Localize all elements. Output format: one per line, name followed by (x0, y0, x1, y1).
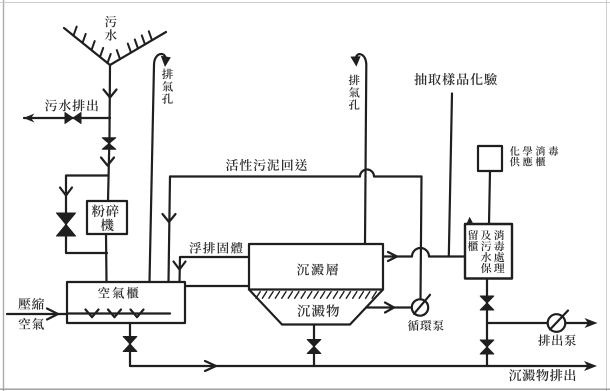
label tank row2 櫃污毒 (468, 241, 505, 251)
wire aeration tank drain (129, 323, 131, 366)
influent funnel left arm (64, 28, 110, 65)
wire sampling tap line (449, 94, 452, 257)
wire chemical feed line (489, 171, 490, 224)
label paiqikong right 排氣孔 (349, 75, 360, 110)
label huoxingwunihuisong 活性污泥回送 (226, 159, 307, 171)
valve on drain line (65, 113, 81, 124)
aeration tank 空氣櫃 (67, 282, 185, 323)
flow arrow right on effluent (388, 252, 397, 261)
vent left arrowhead (161, 56, 171, 67)
valve on aeration drain (123, 337, 137, 352)
flow arrow down on return drop (163, 214, 176, 222)
wire return sludge line 活性污泥回送 (170, 170, 422, 177)
valve on bypass (large) (57, 213, 76, 236)
arrowhead drain left (24, 114, 35, 123)
influent funnel right arm (110, 32, 166, 65)
flow arrow down on main pipe (104, 90, 117, 98)
page border right (606, 0, 608, 391)
wire discharge out (565, 322, 590, 324)
label yasuo 壓縮 (18, 298, 44, 310)
arrowhead bottom discharge (584, 361, 597, 371)
vent pipe left 排氣孔 (150, 54, 166, 282)
tick at tank top-left (466, 217, 473, 225)
label huaxuexiaodu 化學消毒 (510, 146, 559, 156)
label ji 機 (101, 219, 114, 232)
hopper hatching (256, 292, 376, 299)
label kongqi 空氣 (19, 318, 44, 330)
wire bottom discharge line 沉澱物排出 (130, 365, 592, 367)
chemical supply box 化學消毒供應櫃 (478, 146, 502, 171)
wire discharge pump line (487, 322, 548, 324)
wire disinfection drain (486, 279, 488, 367)
label chendianwu 沉澱物 (297, 304, 339, 317)
vent pipe right 排氣孔 (356, 54, 367, 244)
label chouqu yangpin huayan 抽取樣品化驗 (414, 73, 497, 85)
sedimentation tank 沉澱層 (249, 244, 383, 290)
wire main influent pipe upper (108, 65, 110, 201)
valve disinfection upper (480, 296, 494, 310)
label wushui 污水 (105, 16, 117, 41)
label tank row3 水處 (481, 252, 505, 262)
label chendianwupaichu 沉澱物排出 (509, 369, 576, 381)
label tank row4 保理 (481, 263, 505, 273)
wire sewage drain line (24, 117, 110, 119)
label paiqikong left 排氣孔 (162, 69, 173, 104)
wire compressed air line (7, 313, 67, 315)
valve on main pipe (102, 138, 116, 149)
wire main influent pipe lower (105, 234, 108, 282)
funnel left arm ticks (74, 27, 111, 63)
arrowhead discharge out (585, 318, 598, 328)
grinder box 粉碎機 (87, 201, 127, 234)
page border left (3, 0, 5, 391)
label chendianceng 沉澱層 (297, 263, 338, 275)
wire hopper drain (313, 325, 315, 367)
wire bypass loop (66, 176, 108, 254)
page border top (0, 2, 610, 4)
label kongqigui 空氣櫃 (98, 287, 138, 299)
circulation pump 循環泵 (412, 295, 430, 316)
wire effluent line (383, 248, 465, 257)
arrow compressed air (47, 309, 58, 320)
wire hopper to circulation pump (366, 306, 412, 308)
diffuser arrows (86, 310, 144, 318)
label xunhuanbeng 循環泵 (408, 320, 444, 331)
label gongyinggui 供應櫃 (510, 157, 546, 167)
flow arrow on bottom line (205, 361, 216, 371)
funnel right arm ticks (117, 31, 152, 59)
discharge pump 排出泵 (548, 311, 568, 332)
disinfection tank 消毒處理及污水保留櫃 (465, 224, 512, 279)
flow arrow to circulation pump (385, 303, 394, 313)
label fupaiguti 浮排固體 (189, 242, 242, 254)
wire aeration to sedimentation (185, 285, 249, 287)
label wushuipaichu 污水排出 (45, 99, 98, 111)
label paichubeng 排出泵 (538, 334, 576, 346)
wire pump riser (421, 177, 422, 300)
valve on hopper drain (307, 340, 321, 354)
flow arrow down on float line (174, 262, 186, 270)
label tank row1 留及消 (469, 230, 505, 240)
label fensui 粉碎 (92, 204, 119, 217)
flow arrow down on main pipe 2 (101, 158, 114, 166)
flow arrow down on bypass (60, 188, 72, 196)
sedimentation hopper (249, 290, 383, 325)
diffuser header line (67, 312, 170, 314)
wire return line drop (169, 177, 171, 283)
valve disinfection lower (480, 340, 494, 354)
vent right arrowhead (350, 56, 360, 66)
page border bottom (0, 388, 610, 390)
wire floating solids line 浮排固體 (180, 257, 250, 282)
